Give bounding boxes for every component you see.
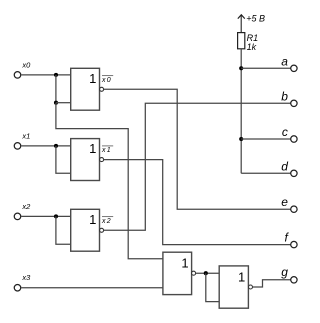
- terminal c: [291, 136, 297, 142]
- svg-text:x0: x0: [101, 77, 112, 84]
- svg-text:a: a: [281, 54, 288, 68]
- wire: tie to DD5 lower input: [206, 273, 219, 301]
- svg-text:e: e: [281, 195, 288, 209]
- inverter DD2 body: [71, 139, 100, 181]
- gate DD4 body: [163, 252, 192, 294]
- wire x1 to gate DD2 top input: [21, 145, 70, 147]
- node: junction dot on x0 lower input: [54, 101, 58, 105]
- svg-text:x2: x2: [21, 202, 31, 211]
- wire: NOT x1 output routed to output f: [104, 160, 291, 245]
- terminal g: [291, 277, 297, 283]
- svg-text:c: c: [282, 125, 288, 139]
- wire: NOT x0 output routed to output e: [104, 89, 291, 209]
- svg-text:x1: x1: [101, 147, 112, 154]
- wire to terminal c: [241, 138, 291, 140]
- node: junction dot on x1 input: [54, 144, 58, 148]
- DD2 output bubble: [100, 158, 104, 162]
- wire to terminal a: [241, 67, 291, 69]
- terminal b: [291, 100, 297, 106]
- wire: x1 vertical tie to second input: [56, 146, 71, 173]
- svg-text:x3: x3: [21, 273, 31, 282]
- terminal x2: [14, 213, 21, 220]
- gate DD5 body: [219, 266, 248, 308]
- svg-text:1: 1: [89, 141, 96, 156]
- wire: DD4 output to DD5 top input: [196, 272, 220, 274]
- svg-text:1: 1: [181, 255, 188, 270]
- DD3 output bubble: [100, 228, 104, 232]
- terminal d: [291, 170, 297, 176]
- svg-text:1k: 1k: [247, 42, 257, 52]
- wire: x0 vertical tie to second input: [55, 75, 57, 103]
- svg-text:x1: x1: [21, 131, 30, 140]
- terminal x0: [14, 72, 21, 79]
- svg-text:+5 В: +5 В: [246, 14, 265, 24]
- wire: x2 vertical tie to second input: [56, 216, 71, 244]
- inverter DD1 body: [71, 68, 100, 110]
- power +5V arrow: [238, 15, 245, 19]
- wire: R1 bottom rail down to output d: [240, 49, 242, 174]
- node: junction dot on x2 input: [54, 214, 58, 218]
- node: junction dot at output a: [239, 66, 243, 70]
- wire: x0 lower input stub: [56, 102, 71, 104]
- svg-text:1: 1: [238, 269, 245, 284]
- wire x3 to gate DD4 lower input: [21, 287, 163, 289]
- terminal f: [291, 241, 297, 247]
- svg-text:1: 1: [89, 71, 96, 86]
- terminal e: [291, 206, 297, 212]
- svg-text:1: 1: [89, 212, 96, 227]
- wire to terminal d: [241, 172, 291, 174]
- wire x2 to gate DD3 top input: [21, 215, 70, 217]
- terminal x1: [14, 143, 21, 150]
- svg-text:d: d: [281, 159, 288, 173]
- terminal x3: [14, 284, 21, 291]
- wire x0 to gate DD1 top input: [21, 74, 70, 76]
- wire: NOT x2 output routed up to output b: [104, 103, 291, 230]
- svg-text:b: b: [281, 89, 288, 103]
- svg-text:g: g: [281, 265, 288, 279]
- node: junction dot between DD4 and DD5: [204, 271, 208, 275]
- inverter DD3 body: [71, 209, 100, 251]
- wire: DD5 output to terminal g: [253, 280, 291, 287]
- DD4 output bubble: [192, 271, 196, 275]
- DD5 output bubble: [249, 285, 253, 289]
- svg-text:x2: x2: [101, 218, 112, 225]
- DD1 output bubble: [100, 87, 104, 91]
- node: junction dot at output c: [239, 137, 243, 141]
- resistor R1: [238, 33, 245, 49]
- node: junction dot on x0 top input: [54, 73, 58, 77]
- terminal a: [291, 65, 297, 71]
- svg-text:x0: x0: [21, 60, 31, 69]
- wire: x0 route down and across to gate DD4 top input: [56, 103, 163, 259]
